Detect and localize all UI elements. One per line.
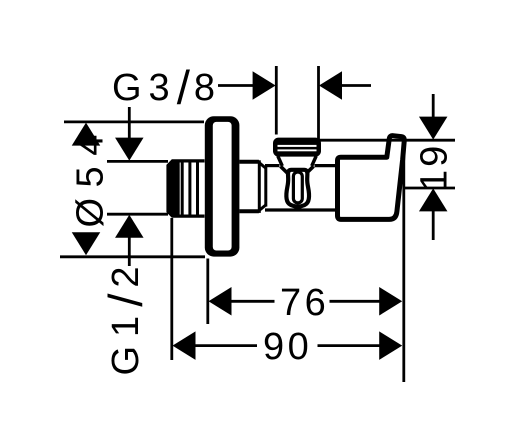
svg-text:90: 90 [263,326,312,368]
dim 76-90 right extension line [402,141,405,383]
dim G1/2 top extension line [107,160,168,163]
svg-text:76: 76 [280,282,329,324]
dim 19 line above [432,94,435,117]
dim G1/2 line below [128,238,131,267]
valve thread line 3 [196,163,199,215]
dim G1/2 arrow up [115,215,144,238]
dim 90 left extension line [170,218,173,360]
valve rosette outer [205,116,240,256]
dim 19 bottom extension line [403,187,455,190]
dim 90 line left [195,344,257,347]
valve thread line 2 [188,163,191,215]
svg-text:19: 19 [414,143,456,191]
dim 90 arrow right [379,331,402,360]
valve inlet thread chamfer fill [167,160,180,218]
dim 76 arrow right [379,287,402,316]
dim 76 left extension line [206,259,209,325]
valve body chamfer top [259,163,266,169]
dim G1/2 arrow down [115,138,144,161]
dim 90 arrow left [173,331,196,360]
valve spindle slot [293,172,302,203]
dim 90 line right [318,344,381,347]
dim O54 arrow down [72,232,101,255]
dim O54 arrow up [72,123,101,146]
valve body section end line [258,160,261,213]
valve barrel bottom edge [265,208,337,211]
dim G1/2 bottom extension line [107,213,168,216]
svg-text:Ø54: Ø54 [70,124,112,227]
valve cap slit 2 [278,149,317,151]
valve fillet right [306,166,313,173]
valve barrel start line [264,167,267,207]
dim 19 top extension line [318,139,455,142]
valve spindle knob [286,170,309,207]
dim 19 arrow down [419,117,448,140]
valve top cap G3/8 nut [273,138,321,157]
dim G3/8 arrow right-pointing [253,71,276,100]
valve thread line 1 [181,163,184,215]
dim 76 line right [330,300,380,303]
dim 19 arrow up [419,188,448,211]
dim O54 top extension line [64,121,204,124]
valve fillet left [281,166,288,173]
valve body chamfer bottom [259,205,266,211]
valve body section top edge [239,160,259,164]
valve neck left [278,156,283,166]
dim O54 bottom extension line [60,255,205,258]
dim G3/8 extension line right [317,66,320,140]
dim 19 line below [432,211,435,240]
dim G3/8 leader line left [218,84,253,87]
valve handle block with lever [338,136,405,220]
dim G3/8 leader line right [342,84,372,87]
valve cap slit 1 [278,145,317,147]
svg-text:G1/2: G1/2 [100,257,153,375]
valve neck right [312,156,317,166]
dim 76 arrow left [209,287,232,316]
valve barrel top edge right [315,164,338,167]
dim G3/8 extension line left [275,66,278,135]
dim G1/2 line above [128,107,131,138]
valve rosette inner [213,122,232,251]
valve body section bottom edge [239,209,259,213]
valve inlet thread G1/2 outline [168,161,205,216]
dim G3/8 arrow left-pointing [319,71,342,100]
dim 76 line left [231,300,275,303]
valve barrel top edge left [265,164,280,167]
